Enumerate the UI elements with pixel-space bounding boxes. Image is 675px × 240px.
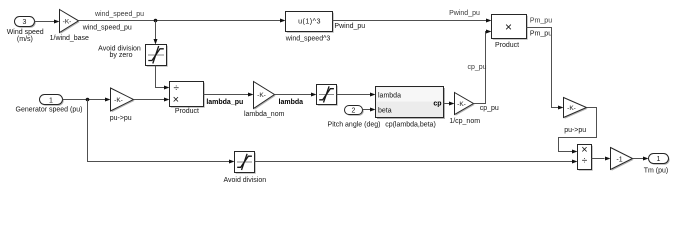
wire saturation to subsystem lambda input xyxy=(337,93,376,97)
input port 3 (Wind speed) xyxy=(15,17,36,28)
svg-text:Pm_pu: Pm_pu xyxy=(530,17,552,24)
wire 1/cp_nom up to Product second input xyxy=(474,30,492,104)
svg-text:wind_speed_pu: wind_speed_pu xyxy=(82,24,132,31)
gain pu->pu (left) xyxy=(110,88,135,122)
svg-text:Pm_pu: Pm_pu xyxy=(530,30,552,37)
svg-text:pu->pu: pu->pu xyxy=(110,115,132,122)
svg-text:wind_speed_pu: wind_speed_pu xyxy=(94,11,144,18)
gain pu->pu (right) xyxy=(564,98,588,134)
wire port1 to pu->pu gain with junction xyxy=(63,98,111,102)
wire saturation down to Product divide input xyxy=(156,66,170,90)
svg-text:Generator speed (pu): Generator speed (pu) xyxy=(16,107,83,114)
wire cp output to 1/cp_nom xyxy=(444,102,455,106)
product Product (middle, divide/multiply) xyxy=(170,82,205,115)
svg-text:3: 3 xyxy=(23,19,27,26)
svg-text:Product: Product xyxy=(175,108,199,115)
saturation (middle) xyxy=(317,85,338,106)
svg-text:1/cp_nom: 1/cp_nom xyxy=(449,118,480,125)
product (multiply/divide, bottom right) xyxy=(578,144,593,171)
input port 2 (Pitch angle) xyxy=(345,106,364,116)
svg-text:beta: beta xyxy=(378,107,392,114)
wire junction down to saturation xyxy=(154,21,158,45)
wire gain to u(1)^3 with junction xyxy=(79,19,286,23)
svg-text:lambda_pu: lambda_pu xyxy=(206,99,243,106)
svg-text:cp_pu: cp_pu xyxy=(480,105,499,112)
product Product (top right) xyxy=(492,15,528,49)
wire Product to lambda_nom xyxy=(204,93,254,97)
wire Product output down to pu->pu (right) xyxy=(527,28,564,110)
svg-text:Wind speed: Wind speed xyxy=(7,29,44,36)
wire generator speed down to bottom saturation xyxy=(88,100,235,164)
svg-text:by zero: by zero xyxy=(110,52,133,59)
svg-text:lambda: lambda xyxy=(279,99,304,106)
svg-text:-K-: -K- xyxy=(457,101,466,108)
svg-text:2: 2 xyxy=(352,108,356,115)
svg-text:-K-: -K- xyxy=(114,97,123,104)
svg-text:Product: Product xyxy=(495,42,519,49)
svg-text:-K-: -K- xyxy=(63,18,72,25)
wire u(1)^3 to Product xyxy=(333,19,492,23)
svg-text:÷: ÷ xyxy=(173,83,179,94)
svg-text:-1: -1 xyxy=(616,156,622,163)
svg-text:×: × xyxy=(581,144,587,156)
svg-text:Pwind_pu: Pwind_pu xyxy=(334,23,365,30)
wire port2 to beta input xyxy=(363,108,376,112)
svg-text:u(1)^3: u(1)^3 xyxy=(298,16,321,25)
svg-text:Tm (pu): Tm (pu) xyxy=(644,168,669,175)
svg-text:÷: ÷ xyxy=(582,156,588,167)
svg-text:pu->pu: pu->pu xyxy=(564,127,586,134)
gain 1/cp_nom xyxy=(449,93,480,125)
output port 1 (Tm) xyxy=(644,154,670,175)
svg-text:wind_speed^3: wind_speed^3 xyxy=(285,35,331,42)
svg-text:(m/s): (m/s) xyxy=(17,36,33,43)
svg-text:lambda_nom: lambda_nom xyxy=(244,111,285,118)
wire port3 to gain xyxy=(35,20,60,24)
svg-text:1: 1 xyxy=(49,97,53,104)
svg-text:-K-: -K- xyxy=(567,105,576,112)
svg-text:Pwind_pu: Pwind_pu xyxy=(449,10,480,17)
svg-text:1/wind_base: 1/wind_base xyxy=(50,35,89,42)
gain lambda_nom xyxy=(244,82,285,119)
saturation Avoid division (bottom) xyxy=(223,152,266,185)
wire -1 to output port xyxy=(633,157,649,161)
label Wind speed (m/s) xyxy=(7,29,44,43)
svg-text:-K-: -K- xyxy=(257,92,266,99)
svg-text:1: 1 xyxy=(657,156,661,163)
svg-text:cp(lambda,beta): cp(lambda,beta) xyxy=(385,122,436,129)
svg-text:Pitch angle (deg): Pitch angle (deg) xyxy=(328,122,381,129)
svg-text:×: × xyxy=(505,20,512,34)
subsystem cp(lambda,beta) xyxy=(376,87,446,129)
svg-text:lambda: lambda xyxy=(378,92,401,99)
wire product to -1 gain xyxy=(592,157,611,161)
wire pu->pu loop to Product x input xyxy=(559,108,597,154)
svg-text:×: × xyxy=(173,94,179,106)
wire bottom saturation to Product divide input xyxy=(255,160,578,164)
math function u(1)^3 xyxy=(285,12,334,43)
svg-text:cp_pu: cp_pu xyxy=(467,64,486,71)
input port 1 (Generator speed) xyxy=(40,95,64,106)
wire lambda_nom to saturation xyxy=(275,93,317,97)
svg-text:Avoid division: Avoid division xyxy=(223,177,266,183)
wire pu->pu gain to Product x input xyxy=(134,98,170,102)
gain 1/wind_base xyxy=(50,10,89,42)
svg-text:cp: cp xyxy=(433,101,441,108)
saturation Avoid division by zero (top) xyxy=(146,45,168,67)
gain -1 xyxy=(611,148,634,171)
label Avoid division by zero xyxy=(98,45,141,59)
